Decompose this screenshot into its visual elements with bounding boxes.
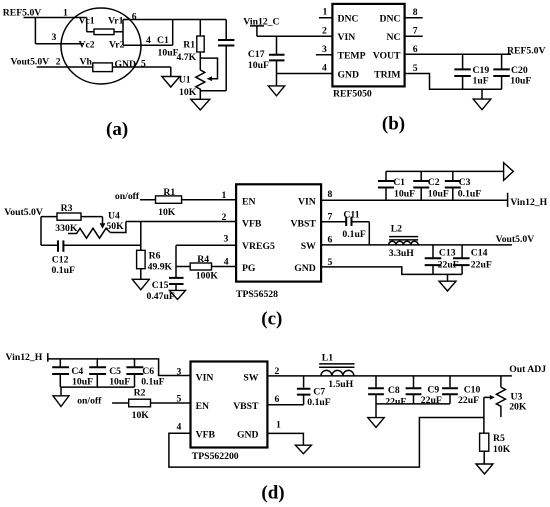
svg-text:Vr2: Vr2 [109,39,125,50]
svg-text:C4: C4 [71,366,83,377]
svg-text:R6: R6 [149,251,161,262]
svg-text:DNC: DNC [380,14,401,25]
svg-text:10uF: 10uF [248,60,269,71]
svg-text:Vin12_H: Vin12_H [6,352,43,363]
svg-text:0.1uF: 0.1uF [458,189,481,200]
svg-text:10K: 10K [179,87,197,98]
svg-text:C12: C12 [52,255,69,266]
svg-text:5: 5 [177,394,182,405]
svg-text:6: 6 [413,44,418,55]
svg-text:VFB: VFB [242,219,262,230]
svg-text:50K: 50K [106,221,124,232]
svg-text:(b): (b) [382,114,405,135]
svg-text:5: 5 [413,63,418,74]
svg-text:U4: U4 [108,211,120,222]
svg-text:C1: C1 [157,35,169,46]
svg-text:GND: GND [294,263,316,274]
svg-text:C1: C1 [393,177,405,188]
svg-text:10uF: 10uF [394,189,415,200]
svg-text:10uF: 10uF [72,377,93,388]
svg-text:8: 8 [328,189,333,200]
svg-text:VBST: VBST [290,219,316,230]
svg-text:4.7K: 4.7K [177,52,197,63]
svg-text:1.5uH: 1.5uH [328,379,353,390]
svg-text:C3: C3 [459,177,471,188]
svg-text:C15: C15 [152,280,169,291]
svg-text:3: 3 [52,32,57,43]
svg-text:VBST: VBST [233,401,259,412]
svg-text:VREG5: VREG5 [242,241,275,252]
svg-text:22uF: 22uF [438,260,459,271]
svg-text:0.1uF: 0.1uF [52,265,75,276]
svg-text:R4: R4 [197,254,209,265]
svg-text:R2: R2 [134,387,146,398]
svg-text:GND: GND [237,429,259,440]
svg-text:C20: C20 [511,65,528,76]
svg-text:(d): (d) [261,483,284,504]
svg-text:3: 3 [177,367,182,378]
svg-text:10uF: 10uF [109,377,130,388]
svg-text:C10: C10 [464,385,481,396]
svg-text:SW: SW [301,241,316,252]
svg-text:C8: C8 [388,385,400,396]
svg-text:3: 3 [224,234,229,245]
svg-text:on/off: on/off [115,191,140,202]
svg-text:EN: EN [242,196,255,207]
svg-text:REF5.0V: REF5.0V [507,45,545,56]
svg-text:R1: R1 [183,39,195,50]
svg-text:1: 1 [276,420,281,431]
svg-text:TRIM: TRIM [374,69,400,80]
svg-text:Vr1: Vr1 [108,16,124,27]
svg-text:C13: C13 [439,247,456,258]
svg-text:(c): (c) [261,309,282,330]
svg-text:10K: 10K [132,410,150,421]
svg-text:3: 3 [322,44,327,55]
svg-text:R3: R3 [61,203,73,214]
svg-text:4: 4 [146,35,151,46]
svg-text:C17: C17 [248,49,265,60]
svg-text:Vin12_C: Vin12_C [243,17,279,28]
svg-text:22uF: 22uF [458,395,479,406]
svg-text:2: 2 [222,212,227,223]
svg-text:100K: 100K [196,270,219,281]
svg-text:Vout5.0V: Vout5.0V [11,57,50,68]
svg-text:C19: C19 [473,65,490,76]
svg-text:Vout5.0V: Vout5.0V [496,234,535,245]
svg-text:7: 7 [413,26,418,37]
svg-text:2: 2 [56,57,61,68]
svg-text:VFB: VFB [196,429,216,440]
svg-text:TPS56528: TPS56528 [236,289,278,300]
svg-text:Vin12_H: Vin12_H [510,197,547,208]
svg-text:1uF: 1uF [473,76,489,87]
svg-text:R5: R5 [493,433,505,444]
svg-text:330K: 330K [55,223,78,234]
svg-text:1: 1 [63,8,68,19]
svg-text:TPS562200: TPS562200 [192,451,239,462]
svg-text:VIN: VIN [196,373,214,384]
svg-text:VIN: VIN [338,32,356,43]
svg-text:Vh: Vh [80,57,93,68]
svg-text:L1: L1 [322,352,333,363]
svg-text:C7: C7 [313,386,325,397]
svg-text:U1: U1 [179,75,191,86]
svg-text:C5: C5 [109,366,121,377]
svg-text:22uF: 22uF [421,395,442,406]
svg-text:1: 1 [222,190,227,201]
svg-text:2: 2 [322,26,327,37]
svg-text:EN: EN [196,401,209,412]
svg-text:(a): (a) [106,119,128,140]
svg-text:R1: R1 [163,187,175,198]
svg-text:3.3uH: 3.3uH [389,248,414,259]
svg-text:5: 5 [328,257,333,268]
svg-text:49.9K: 49.9K [148,262,173,273]
svg-text:C11: C11 [343,210,359,221]
svg-text:20K: 20K [509,401,527,412]
svg-text:0.1uF: 0.1uF [141,377,164,388]
svg-text:10uF: 10uF [158,47,179,58]
svg-text:C9: C9 [427,385,439,396]
svg-text:6: 6 [328,234,333,245]
svg-text:4: 4 [224,257,229,268]
svg-text:DNC: DNC [338,14,359,25]
svg-text:NC: NC [387,32,401,43]
svg-text:6: 6 [275,394,280,405]
svg-text:Vc1: Vc1 [79,16,95,27]
svg-text:22uF: 22uF [471,260,492,271]
svg-text:8: 8 [413,7,418,18]
svg-text:0.1uF: 0.1uF [307,397,330,408]
svg-text:Vout5.0V: Vout5.0V [4,207,43,218]
svg-text:4: 4 [322,63,327,74]
svg-text:0.1uF: 0.1uF [342,229,365,240]
svg-text:SW: SW [243,373,258,384]
svg-text:PG: PG [242,263,256,274]
svg-text:2: 2 [275,366,280,377]
svg-text:L2: L2 [391,224,402,235]
svg-text:6: 6 [132,11,137,22]
svg-text:GND: GND [115,59,137,70]
svg-text:Vc2: Vc2 [79,39,95,50]
svg-text:7: 7 [328,211,333,222]
svg-text:0.47uF: 0.47uF [147,291,175,302]
svg-text:1: 1 [323,6,328,17]
svg-text:Out ADJ: Out ADJ [509,364,546,375]
svg-text:on/off: on/off [77,396,102,407]
svg-text:10uF: 10uF [510,76,531,87]
svg-text:C2: C2 [428,177,440,188]
svg-text:REF5.0V: REF5.0V [3,7,41,18]
svg-text:5: 5 [141,58,146,69]
svg-text:VIN: VIN [298,196,316,207]
svg-text:10uF: 10uF [428,189,449,200]
svg-text:C6: C6 [142,366,154,377]
svg-text:GND: GND [338,69,360,80]
svg-text:VOUT: VOUT [373,51,401,62]
svg-text:REF5050: REF5050 [333,89,372,100]
svg-text:TEMP: TEMP [338,51,366,62]
svg-text:4: 4 [177,422,182,433]
svg-text:10K: 10K [493,444,511,455]
svg-text:C14: C14 [471,247,488,258]
svg-text:22uF: 22uF [385,397,406,408]
svg-text:10K: 10K [158,207,176,218]
